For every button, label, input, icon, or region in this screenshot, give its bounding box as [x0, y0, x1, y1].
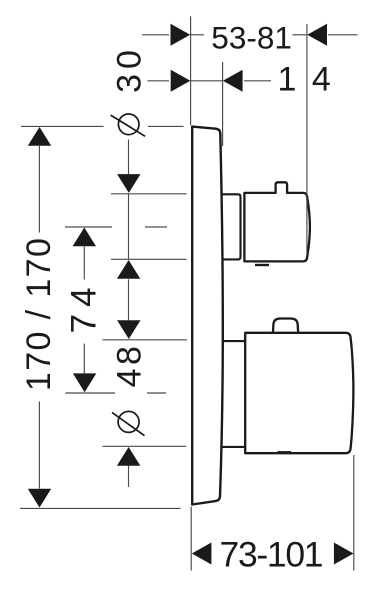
svg-text:53-81: 53-81	[211, 20, 292, 56]
svg-text:170 / 170: 170 / 170	[20, 237, 58, 391]
svg-text:1 4: 1 4	[278, 60, 334, 98]
svg-text:48: 48	[111, 343, 149, 388]
svg-text:30: 30	[111, 45, 149, 93]
svg-text:74: 74	[65, 280, 104, 333]
svg-text:73-101: 73-101	[220, 535, 323, 575]
